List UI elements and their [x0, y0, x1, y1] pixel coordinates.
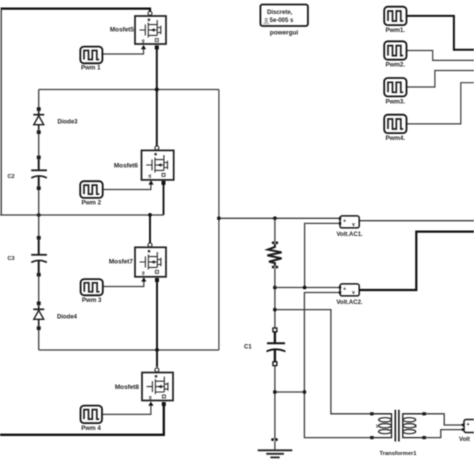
svg-text:Pwm 1: Pwm 1 [81, 65, 101, 72]
svg-text:Mosfet8: Mosfet8 [115, 384, 140, 391]
wire left edge rail [0, 9, 2, 215]
wire node B to Volt.AC2 plus [275, 287, 340, 289]
node junction at 274.9,309.6 [273, 308, 277, 312]
svg-text:= 5e-005 s: = 5e-005 s [265, 18, 295, 24]
pulse generator Pwm 4 [81, 406, 103, 432]
svg-text:+: + [343, 218, 346, 224]
series RLC branch L1 [267, 242, 281, 269]
wire Volt.AC2 minus riser to transformer [304, 293, 370, 438]
svg-text:Volt: Volt [459, 437, 470, 443]
svg-text:Mosfet7: Mosfet7 [109, 258, 134, 265]
wire Mosfet5 source to Mosfet6 drain [156, 49, 158, 147]
wire dc mid to Volt.AC1 [219, 217, 340, 219]
wire top rail [1, 9, 151, 12]
node junction at 157,89.5 [155, 88, 159, 92]
pulse generator Pwm 2 [80, 181, 103, 206]
wire Pwm4 gate drive [101, 404, 151, 414]
wire right clamp vertical x218.9 [218, 90, 220, 351]
node junction at 274.9,218.3 [273, 216, 277, 220]
svg-text:Pwm2.: Pwm2. [385, 62, 405, 69]
wire Pwm1 gate drive [102, 49, 143, 54]
svg-text:v: v [352, 222, 355, 228]
svg-text:Pwm 3: Pwm 3 [82, 297, 102, 304]
svg-text:2: 2 [414, 424, 417, 429]
svg-text:Pwm 4: Pwm 4 [81, 425, 101, 432]
svg-text:Mosfet5: Mosfet5 [110, 27, 135, 34]
wire Volt.AC2 output [359, 232, 474, 290]
svg-text:g: g [149, 395, 152, 400]
svg-text:Pwm 2: Pwm 2 [81, 199, 101, 206]
wire RLC branch column x274.9 [274, 218, 276, 439]
svg-text:v: v [352, 290, 355, 296]
wire right Pwm2 out [407, 51, 474, 61]
svg-text:1: 1 [376, 424, 379, 429]
wire right Pwm4 out [407, 83, 474, 124]
powergui block [260, 5, 308, 37]
svg-text:Volt.AC2.: Volt.AC2. [336, 300, 363, 306]
node junction at 38.7,215 [37, 213, 41, 217]
wire to Mosfet7 drain [149, 215, 151, 244]
pulse generator Pwm4. [384, 115, 406, 142]
wire right Pwm1 out [407, 16, 474, 50]
svg-text:C1: C1 [244, 345, 252, 351]
wire right Pwm3 out [407, 71, 474, 88]
node junction at 304.4,392 [303, 390, 307, 394]
svg-text:Transformer1: Transformer1 [379, 451, 417, 457]
wire Pwm3 gate drive [103, 280, 144, 287]
wire node to transformer primary top [275, 310, 370, 414]
svg-text:C2: C2 [8, 174, 15, 180]
wire transformer secondary top to Volt [426, 414, 462, 425]
wire left clamp top y89.5 [39, 89, 219, 91]
node junction at 274.9,287.5 [273, 286, 277, 290]
voltage measurement Volt.AC1 [336, 216, 363, 238]
wire Volt.AC1 minus riser [305, 223, 340, 287]
mosfet Mosfet7 [109, 243, 166, 282]
voltage measurement Volt.AC2 [336, 284, 363, 306]
node junction at 274.9,392 [273, 390, 277, 394]
svg-text:Mosfet6: Mosfet6 [114, 163, 139, 170]
wire Volt.AC1 output [359, 220, 474, 222]
mosfet Mosfet5 [110, 11, 166, 49]
node junction at 150,215 [148, 213, 152, 217]
node junction at 304.6,287.5 [303, 286, 307, 290]
svg-text:+: + [343, 286, 346, 292]
svg-text:Discrete,: Discrete, [267, 10, 293, 16]
wire Mosfet7 source to Mosfet8 drain [156, 281, 158, 368]
pulse generator Pwm 3 [81, 279, 103, 304]
diode Diode4 [33, 302, 77, 331]
svg-text:g: g [142, 270, 145, 275]
svg-text:+: + [467, 422, 470, 428]
mosfet Mosfet8 [115, 368, 173, 406]
svg-text:Pwm4.: Pwm4. [385, 135, 405, 142]
diode Diode3 [33, 107, 78, 134]
node junction at 157,350 [155, 348, 159, 352]
capacitor C1 [244, 328, 285, 366]
wire left clamp branch column x38.7 [38, 90, 40, 351]
wire Mosfet6 source step [163, 185, 165, 215]
svg-text:Volt.AC1.: Volt.AC1. [336, 232, 363, 238]
transformer Transformer1 [370, 410, 426, 457]
svg-text:Pwm1.: Pwm1. [385, 27, 405, 34]
wire C1 bottom tie y392 [275, 391, 305, 393]
svg-text:Diode3: Diode3 [58, 120, 79, 126]
wire transformer secondary bottom to Volt [426, 430, 462, 438]
wire bottom rail [0, 404, 164, 435]
pulse generator Pwm2. [384, 41, 406, 68]
capacitor C3 [8, 236, 47, 277]
node junction at 218.9,218.3 [217, 216, 221, 220]
wire mid rail y215 [0, 214, 164, 216]
wire Pwm2 gate drive [103, 185, 151, 190]
svg-text:g: g [142, 38, 145, 43]
pulse generator Pwm3. [384, 78, 406, 105]
svg-text:g: g [149, 173, 152, 178]
capacitor C2 [8, 156, 47, 190]
ground [258, 438, 293, 457]
mosfet Mosfet6 [114, 146, 174, 185]
pulse generator Pwm1. [384, 7, 406, 34]
svg-text:Pwm3.: Pwm3. [385, 98, 405, 105]
voltage measurement Volt [459, 420, 474, 444]
svg-text:powergui: powergui [270, 30, 299, 37]
svg-text:C3: C3 [8, 256, 15, 262]
pulse generator Pwm 1 [80, 47, 102, 72]
svg-text:Diode4: Diode4 [57, 314, 78, 320]
wire clamp bottom y350 [39, 349, 219, 351]
